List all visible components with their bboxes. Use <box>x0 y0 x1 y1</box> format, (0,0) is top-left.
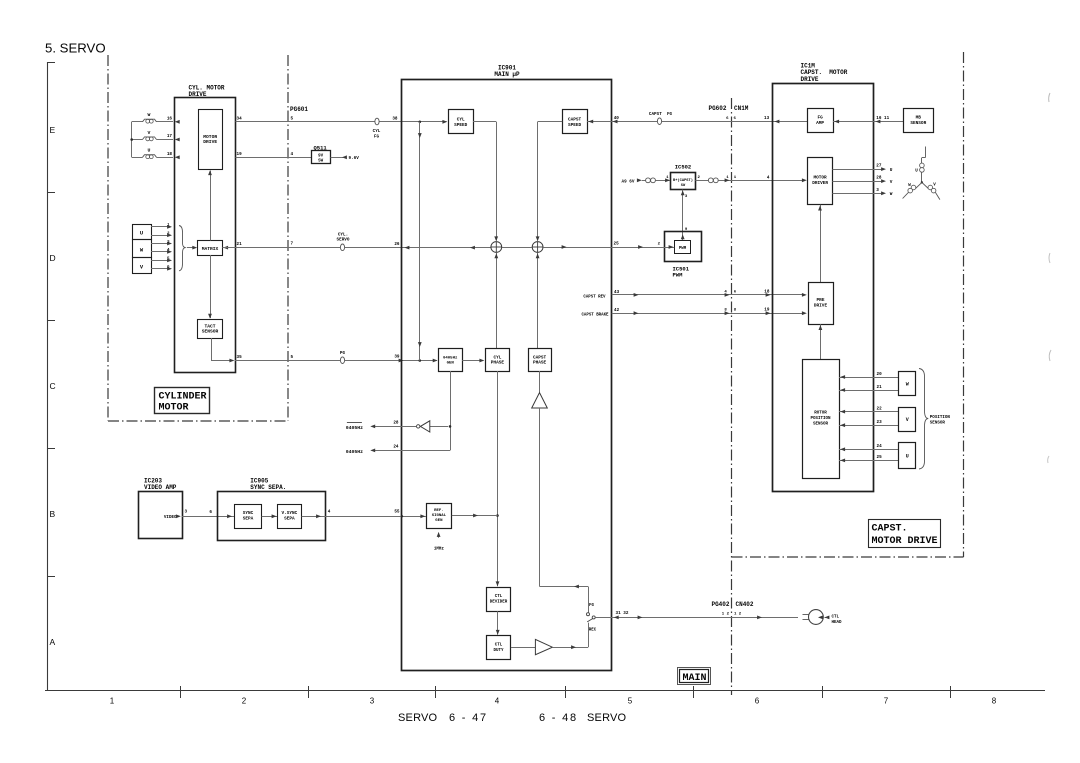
winding U with pin 18 <box>132 157 143 159</box>
summing node capst <box>532 242 543 253</box>
svg-text:7: 7 <box>884 697 889 706</box>
svg-text:U: U <box>140 230 143 236</box>
svg-text:3: 3 <box>185 510 188 515</box>
sensor box U <box>133 225 152 240</box>
svg-text:V: V <box>933 183 936 187</box>
block 0405Hz GEN <box>439 349 463 372</box>
svg-text:CN1M: CN1M <box>734 105 749 112</box>
svg-text:CAPST REV: CAPST REV <box>583 295 606 299</box>
wire node to pin 24 <box>372 450 451 452</box>
CAPST MOTOR DRIVE label box <box>869 520 941 548</box>
svg-text:20: 20 <box>877 372 883 377</box>
svg-text:V: V <box>890 180 893 185</box>
block MATRIX <box>198 241 223 256</box>
svg-text:SYNC: SYNC <box>243 511 254 516</box>
svg-text:MOTOR: MOTOR <box>203 134 217 140</box>
svg-text:1 2: 1 2 <box>734 613 742 617</box>
svg-text:B+(CAPST): B+(CAPST) <box>673 178 693 183</box>
wire PRE DRIVE to MOTOR DRIVER <box>820 205 822 283</box>
svg-text:E: E <box>50 125 56 135</box>
scan mark 3 <box>1049 350 1051 361</box>
svg-text:21: 21 <box>877 385 883 390</box>
svg-text:DRIVE: DRIVE <box>203 139 217 145</box>
block CAPST PHASE <box>529 349 552 372</box>
wire SYNC SEPA to V.SYNC SEPA <box>262 516 278 518</box>
svg-text:D: D <box>50 253 56 263</box>
brace joining sensor wires <box>179 226 186 271</box>
svg-text:W: W <box>890 192 893 197</box>
1MHz input <box>438 533 440 538</box>
svg-text:18: 18 <box>167 152 173 157</box>
summing node cyl <box>491 242 502 253</box>
wire REF GEN output <box>452 515 498 517</box>
svg-text:A9 6V: A9 6V <box>622 180 635 185</box>
wire ROTOR POSITION SENSOR to PRE DRIVE <box>820 324 822 360</box>
svg-text:MOTOR: MOTOR <box>159 403 189 414</box>
svg-text:MOTOR DRIVE: MOTOR DRIVE <box>872 536 938 547</box>
winding common bus <box>131 122 133 158</box>
wire summing node capst to pin 25 <box>543 247 612 249</box>
svg-text:DRIVE: DRIVE <box>801 76 819 83</box>
svg-text:5. SERVO: 5. SERVO <box>45 41 106 56</box>
svg-text:GEN: GEN <box>447 362 455 366</box>
svg-text:SERVO: SERVO <box>337 238 350 243</box>
svg-text:4: 4 <box>767 175 770 180</box>
wire CAPST SPEED pin 40 input <box>587 121 612 123</box>
svg-text:SENSOR: SENSOR <box>930 422 946 426</box>
wire IC203 to IC905 pin3 pin6 <box>182 516 235 518</box>
svg-text:FG: FG <box>374 134 380 139</box>
svg-text:PWM: PWM <box>679 247 687 251</box>
svg-text:GEN: GEN <box>435 519 443 523</box>
wire CAPST FG pin40 to FG AMP <box>612 121 808 123</box>
wire cyl FG pin34 to pin38 <box>236 121 447 123</box>
svg-text:TACT: TACT <box>204 323 215 329</box>
main board boundary chain line PG602-PG402 <box>731 98 733 695</box>
buffer amp after CTL DUTY <box>511 647 536 649</box>
svg-text:CTL: CTL <box>495 595 503 599</box>
wire GEN to CYL PHASE <box>462 360 483 362</box>
winding W with pin 16 <box>132 121 143 123</box>
svg-text:17: 17 <box>167 134 173 139</box>
block PRE DRIVE <box>809 283 834 325</box>
sensor wires pins 1-6 <box>151 226 171 228</box>
svg-text:SENSOR: SENSOR <box>202 329 219 335</box>
svg-text:16: 16 <box>167 117 173 122</box>
svg-text:16 11: 16 11 <box>876 116 889 121</box>
svg-text:27: 27 <box>876 164 882 169</box>
left border line <box>47 62 49 690</box>
svg-text:U: U <box>915 170 918 174</box>
winding V with pin 17 <box>132 139 143 141</box>
hall sensor box U <box>899 443 916 469</box>
svg-text:V: V <box>148 130 151 136</box>
block ROTOR POSITION SENSOR <box>803 360 840 479</box>
sensor box W <box>133 240 152 258</box>
svg-text:VIDEO: VIDEO <box>164 516 177 520</box>
svg-text:W: W <box>148 112 151 118</box>
svg-text:CTL: CTL <box>832 616 840 620</box>
svg-text:IC502: IC502 <box>675 164 692 171</box>
wire cyl phase to summing node <box>496 253 498 349</box>
wire pin19 to Q511 <box>236 157 312 159</box>
svg-text:POSITION: POSITION <box>810 417 831 421</box>
svg-text:MATRIX: MATRIX <box>202 246 219 252</box>
svg-text:CAPST FG: CAPST FG <box>649 112 673 117</box>
svg-text:VIDEO AMP: VIDEO AMP <box>144 484 177 491</box>
motor driver outputs U V W <box>832 169 881 171</box>
wire MB SENSOR to FG AMP <box>833 121 903 123</box>
svg-text:13: 13 <box>764 116 770 121</box>
wire PG pin35 pin5 pin39 <box>235 360 437 362</box>
wire between summing nodes <box>502 247 532 249</box>
svg-text:4: 4 <box>724 290 727 294</box>
svg-text:5: 5 <box>291 116 294 121</box>
IC1M outline box <box>773 84 874 492</box>
inverter to pin 28 <box>430 426 448 428</box>
svg-text:19: 19 <box>764 308 770 313</box>
svg-text:PHASE: PHASE <box>491 361 505 366</box>
svg-text:PG602: PG602 <box>708 105 726 112</box>
svg-text:MAIN: MAIN <box>683 673 707 684</box>
svg-text:8: 8 <box>992 697 997 706</box>
svg-text:FG: FG <box>589 604 595 608</box>
wire IC905 pin4 to IC901 pin55 <box>302 516 426 518</box>
block CYL PHASE <box>486 349 510 372</box>
9.6V supply arrow <box>331 157 344 159</box>
svg-text:HEAD: HEAD <box>832 621 843 625</box>
capstan motor star winding <box>921 172 923 182</box>
CYLINDER MOTOR label box <box>155 388 210 414</box>
svg-text:3: 3 <box>370 697 375 706</box>
capstan board boundary right chain line <box>963 52 965 557</box>
svg-text:2: 2 <box>658 243 661 247</box>
svg-text:2: 2 <box>242 697 247 706</box>
CTL head symbol <box>803 614 810 616</box>
block CTL DEVIDER <box>487 588 511 612</box>
svg-text:SPEED: SPEED <box>568 123 582 128</box>
svg-text:DRIVER: DRIVER <box>812 181 828 186</box>
svg-text:19: 19 <box>237 152 243 157</box>
svg-text:MAIN μP: MAIN μP <box>494 71 520 78</box>
block FG AMP <box>808 109 834 133</box>
svg-text:4: 4 <box>291 152 294 157</box>
svg-text:1: 1 <box>726 176 729 180</box>
svg-text:24: 24 <box>393 445 399 450</box>
svg-text:W: W <box>140 247 144 253</box>
svg-text:REF.: REF. <box>434 509 444 513</box>
svg-text:POSITION: POSITION <box>930 416 951 420</box>
svg-text:SW: SW <box>318 160 324 164</box>
scan mark 1 <box>1049 93 1050 102</box>
svg-text:6: 6 <box>734 117 737 121</box>
svg-text:CYL: CYL <box>373 129 381 134</box>
wire CYL SERVO pin21 pin7 pin26 <box>223 246 228 250</box>
svg-text:0405Hz: 0405Hz <box>346 449 363 455</box>
wire IC501 to IC502 pin3 pin9 <box>682 190 684 241</box>
block CYL SPEED <box>449 110 474 134</box>
FG/REC switch <box>587 613 590 616</box>
svg-text:CAPST: CAPST <box>533 355 547 360</box>
svg-text:4: 4 <box>328 510 331 515</box>
svg-text:2: 2 <box>698 176 701 180</box>
wire MATRIX to TACT SENSOR <box>210 255 212 318</box>
op-amp IC501 PWM <box>665 232 702 262</box>
svg-text:31 32: 31 32 <box>616 611 629 616</box>
svg-text:CTL: CTL <box>495 644 503 648</box>
svg-text:A: A <box>50 637 56 647</box>
svg-text:24: 24 <box>877 444 883 449</box>
svg-text:SERVO: SERVO <box>398 712 438 724</box>
sensor box V <box>133 258 152 274</box>
wire MATRIX to MOTOR DRIVE <box>210 171 212 241</box>
wire TACT SENSOR to pin 35 <box>211 338 213 361</box>
svg-text:23: 23 <box>877 420 883 425</box>
svg-text:B: B <box>50 509 56 519</box>
svg-text:C: C <box>50 381 56 391</box>
op-amp U-block IC901 outline <box>402 80 612 671</box>
svg-text:21: 21 <box>237 242 243 247</box>
block IC905 sync separator <box>218 492 326 541</box>
scan mark 4 <box>1048 456 1049 463</box>
svg-text:U: U <box>906 454 909 460</box>
block CAPST SPEED <box>563 110 588 134</box>
svg-text:34: 34 <box>237 116 243 121</box>
wire CYL PHASE down to CTL DEVIDER <box>497 371 499 586</box>
svg-text:6: 6 <box>734 290 737 294</box>
wire CTL pins 31 32 to PG402 <box>595 617 798 619</box>
svg-text:DRIVE: DRIVE <box>814 303 828 308</box>
svg-text:1MHz: 1MHz <box>434 548 445 552</box>
svg-text:5: 5 <box>628 697 633 706</box>
svg-text:SEPA: SEPA <box>243 516 254 521</box>
brace position sensor <box>919 369 928 470</box>
oscillator triangle to CAPST PHASE <box>539 371 541 392</box>
svg-text:SENSOR: SENSOR <box>813 422 829 426</box>
svg-text:6 - 47: 6 - 47 <box>449 712 488 724</box>
hall sensor box V <box>899 408 916 432</box>
block SYNC SEPA <box>235 505 262 529</box>
svg-text:V: V <box>140 264 144 270</box>
svg-text:55: 55 <box>394 510 400 515</box>
block CTL DUTY <box>487 636 511 660</box>
block REF SIGNAL GEN <box>427 504 452 529</box>
svg-text:CN402: CN402 <box>736 601 754 608</box>
block MB SENSOR <box>904 109 934 133</box>
bottom border line <box>45 690 1045 692</box>
svg-text:6: 6 <box>726 117 729 121</box>
block MOTOR DRIVE <box>199 110 223 170</box>
svg-text:SW: SW <box>681 184 686 188</box>
svg-text:6: 6 <box>755 697 760 706</box>
block TACT SENSOR <box>198 320 223 339</box>
cylinder board boundary right chain line <box>287 55 289 421</box>
svg-text:9V: 9V <box>318 155 324 159</box>
svg-text:4: 4 <box>495 697 500 706</box>
svg-text:6 - 48: 6 - 48 <box>539 712 578 724</box>
svg-text:43: 43 <box>614 290 620 295</box>
svg-text:8: 8 <box>734 309 737 313</box>
svg-text:SPEED: SPEED <box>454 123 468 128</box>
svg-text:SEPA: SEPA <box>284 516 295 521</box>
svg-text:V.SYNC: V.SYNC <box>281 511 297 516</box>
svg-text:CYLINDER: CYLINDER <box>159 391 207 402</box>
svg-text:0405Hz: 0405Hz <box>346 425 363 431</box>
block V.SYNC SEPA <box>278 505 302 529</box>
wire buffer to REC contact <box>552 647 588 649</box>
svg-text:35: 35 <box>237 355 243 360</box>
cyl motor drive outer box <box>175 98 236 373</box>
block IC203 video amp <box>139 492 183 539</box>
wire CYL SPEED to summing node <box>473 121 496 123</box>
svg-text:V: V <box>906 417 909 423</box>
svg-text:1: 1 <box>110 697 115 706</box>
wire GEN down to inverter node <box>450 371 452 450</box>
svg-text:CAPST.: CAPST. <box>872 523 908 534</box>
svg-text:REC: REC <box>589 629 597 633</box>
svg-text:9.6V: 9.6V <box>349 156 360 161</box>
svg-text:22: 22 <box>877 406 883 411</box>
svg-text:0405Hz: 0405Hz <box>443 356 458 360</box>
svg-text:PG601: PG601 <box>290 106 308 113</box>
svg-text:U: U <box>890 168 893 173</box>
svg-text:7: 7 <box>291 242 294 247</box>
svg-text:28: 28 <box>876 176 882 181</box>
wire capst phase to summing node <box>537 253 539 349</box>
wire pin25 to PWM pin2 <box>612 247 675 249</box>
wire CAPST REV pin43 <box>612 294 803 296</box>
hall sensor wires pins 20-25 <box>839 377 899 379</box>
svg-text:PWM: PWM <box>673 272 684 279</box>
svg-text:SYNC SEPA.: SYNC SEPA. <box>250 484 286 491</box>
wire FG contact branch <box>540 586 589 588</box>
svg-text:26: 26 <box>394 242 400 247</box>
svg-text:28: 28 <box>393 421 399 426</box>
wire CAPST BRAKE pin42 <box>612 313 803 315</box>
svg-text:1 2: 1 2 <box>722 613 730 617</box>
svg-text:SERVO: SERVO <box>587 712 627 724</box>
svg-text:3: 3 <box>685 195 688 199</box>
svg-text:PG: PG <box>340 351 346 356</box>
svg-text:18: 18 <box>764 289 770 294</box>
svg-text:25: 25 <box>877 455 883 460</box>
svg-text:AMP: AMP <box>816 121 824 126</box>
svg-text:DUTY: DUTY <box>493 649 504 653</box>
svg-text:6: 6 <box>209 510 212 515</box>
svg-text:25: 25 <box>614 242 620 247</box>
svg-text:PHASE: PHASE <box>533 361 547 366</box>
svg-text:42: 42 <box>614 308 620 313</box>
svg-text:40: 40 <box>614 116 620 121</box>
svg-text:1: 1 <box>734 176 737 180</box>
svg-text:SIGNAL: SIGNAL <box>432 514 447 518</box>
scan mark 2 <box>1049 253 1050 263</box>
svg-text:3: 3 <box>876 188 879 193</box>
hall sensor box W <box>899 372 916 396</box>
svg-text:CYL: CYL <box>493 355 501 360</box>
cylinder board boundary left chain line <box>107 55 109 421</box>
svg-text:CAPST BRAKE: CAPST BRAKE <box>581 314 609 318</box>
svg-text:8: 8 <box>724 309 727 313</box>
svg-text:U: U <box>148 148 151 154</box>
block MOTOR DRIVER <box>808 158 833 205</box>
svg-text:PG402: PG402 <box>711 601 729 608</box>
cylinder board boundary bottom chain line <box>108 420 288 422</box>
svg-text:ROTOR: ROTOR <box>814 412 827 416</box>
svg-text:38: 38 <box>392 116 398 121</box>
wire CTL DEVIDER to CTL DUTY <box>497 611 499 634</box>
MAIN label box <box>678 668 711 685</box>
svg-text:W: W <box>906 382 909 388</box>
wire CAPST SPEED to summing node <box>538 121 563 123</box>
svg-text:5: 5 <box>291 355 294 360</box>
capstan board boundary bottom chain line <box>732 556 964 558</box>
svg-text:SENSOR: SENSOR <box>910 121 926 126</box>
svg-text:DEVIDER: DEVIDER <box>490 600 508 604</box>
wire IC502 to motor driver pin 4 <box>695 180 708 182</box>
wire brace to MATRIX <box>187 247 194 249</box>
wire cyl fg branch down <box>419 122 421 361</box>
